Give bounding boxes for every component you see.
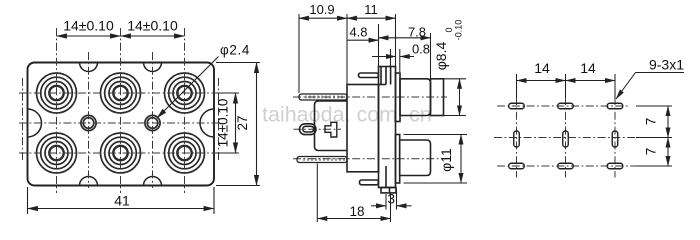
slot r2c3 vertical [612, 131, 618, 147]
extension pcb row1 [636, 105, 672, 107]
leader 9-3x1 [616, 73, 684, 100]
centerline side lug [294, 128, 342, 130]
extension tab right [390, 49, 392, 67]
extension row1 right [216, 92, 239, 94]
centerline outside right [218, 78, 220, 162]
svg-text:18: 18 [349, 204, 364, 219]
leader phi2.4 [157, 57, 219, 119]
svg-text:4.8: 4.8 [349, 25, 367, 40]
svg-text:3: 3 [388, 192, 396, 207]
slot r1c2 [558, 103, 574, 109]
extension pcb col1 [516, 74, 518, 98]
dimension 0.8 left arrow [372, 56, 396, 58]
dimension 41 [28, 187, 215, 214]
dimension phi11 [404, 135, 468, 184]
svg-text:10.9: 10.9 [309, 2, 334, 17]
svg-text:7.8: 7.8 [408, 25, 426, 40]
dimension 14 pcb (col2-col3) [566, 80, 616, 82]
svg-text:41: 41 [114, 193, 130, 209]
pin P2 serration [304, 158, 344, 161]
label phi8.4 tolerance [444, 20, 464, 41]
extension row2 right [216, 152, 239, 154]
top edge notch 2 [144, 63, 162, 72]
extension pcb col3 [614, 74, 616, 98]
slot r1c1 [509, 103, 525, 109]
right edge notch [200, 109, 214, 137]
top edge notch 1 [80, 63, 98, 72]
dimension 10.9 [299, 17, 347, 19]
svg-text:14±0.10: 14±0.10 [63, 18, 114, 34]
flange [379, 67, 396, 188]
centerline pcb col1 [516, 97, 518, 178]
dimension phi8.4 [432, 79, 466, 116]
extension barrel end [430, 33, 432, 79]
dimension 27 [216, 63, 260, 186]
side lug slot [303, 126, 314, 132]
dimension 3 [371, 189, 412, 210]
svg-text:φ11: φ11 [438, 148, 454, 172]
dimension 7 pcb (row2-row3) [667, 138, 669, 167]
centerline pcb row2 [494, 137, 648, 139]
centerline outside left [22, 78, 24, 162]
centerline col3 [184, 28, 186, 193]
slot r3c3 [607, 163, 623, 169]
flange bottom tab [381, 188, 396, 193]
collar upper [396, 73, 401, 122]
extension pin tip [298, 14, 300, 93]
svg-text:14: 14 [534, 60, 550, 76]
extension collar left [399, 49, 401, 72]
centerline pcb row3 [497, 165, 638, 167]
front plate outline [28, 63, 215, 186]
svg-text:0.8: 0.8 [412, 42, 430, 57]
centerline pcb col3 [614, 97, 616, 178]
svg-text:27: 27 [235, 115, 250, 130]
barrel lower [400, 140, 431, 176]
flange inner line top [385, 67, 387, 85]
body top edge into flange [379, 84, 387, 86]
bottom edge notch 1 [80, 177, 98, 186]
slot r3c2 [558, 163, 574, 169]
centerline lower jack axis [293, 158, 447, 160]
left edge notch [28, 109, 42, 137]
centerline hole H1 [88, 52, 90, 188]
dimension 11 [347, 17, 396, 19]
jack B3 (row2 col3) [165, 133, 205, 173]
extension pcb row3 [636, 165, 672, 167]
barrel upper tip [431, 79, 444, 116]
side lug [300, 124, 317, 135]
collar lower [396, 135, 400, 184]
flange inner line bottom [385, 166, 387, 188]
housing body [347, 85, 379, 172]
dimension 14+-0.10 (col1-col2) [57, 35, 121, 37]
jack B2 (row2 col2) [101, 133, 141, 173]
mounting hole H2 (phi 2.4) [145, 115, 160, 130]
slot r3c1 [509, 163, 525, 169]
slot r2c1 vertical [514, 131, 520, 147]
bottom edge notch 2 [144, 177, 162, 186]
svg-text:9-3x1: 9-3x1 [649, 57, 684, 73]
jack A1 (row1 col1) [37, 73, 77, 113]
dimension 14+-0.10 vertical (row1-row2) [235, 93, 237, 153]
centerline mid horizontal [19, 122, 222, 124]
jack A3 (row1 col3) [165, 73, 205, 113]
dimension 4.8 [347, 39, 379, 41]
flange top internal lines [381, 67, 391, 85]
mounting hole H1 (phi 2.4) [81, 115, 96, 130]
jack A2 (row1 col2) [101, 73, 141, 113]
pin P1 [299, 94, 347, 100]
svg-text:11: 11 [364, 2, 378, 17]
svg-text:φ8.4: φ8.4 [433, 42, 449, 71]
jack B1 (row2 col1) [37, 133, 77, 173]
svg-text:0: 0 [444, 27, 454, 32]
svg-text:-0.10: -0.10 [454, 20, 464, 41]
bottom peg [360, 180, 379, 185]
top peg [359, 73, 379, 78]
svg-text:14±0.10: 14±0.10 [216, 99, 231, 148]
slot r2c2 vertical [563, 131, 569, 147]
extension body left [346, 14, 348, 85]
centerline pcb row1 [497, 105, 630, 107]
svg-text:14: 14 [580, 60, 596, 76]
svg-text:φ2.4: φ2.4 [220, 43, 250, 58]
dimension 7.8 [379, 37, 431, 39]
latch window [325, 122, 337, 137]
slot r1c3 [607, 103, 623, 109]
dimension 7 pcb (row1-row2) [667, 106, 669, 138]
dimension 0.8 right arrow [400, 56, 414, 58]
extension flange left [378, 24, 380, 67]
centerline col2 [120, 28, 122, 193]
centerline col1 [56, 28, 58, 193]
centerline pcb col2 [565, 97, 567, 178]
side bracket [315, 101, 348, 151]
svg-text:7: 7 [644, 148, 659, 156]
extension flange right top [395, 14, 397, 67]
extension pcb row2 [636, 137, 672, 139]
dimension 18 [317, 164, 390, 223]
svg-text:14±0.10: 14±0.10 [127, 18, 178, 34]
dimension 14+-0.10 (col2-col3) [121, 35, 185, 37]
pin P1 serration [306, 96, 342, 99]
extension pcb col2 [565, 74, 567, 98]
centerline row1 [19, 92, 216, 94]
svg-text:7: 7 [644, 118, 659, 126]
pin P2 [297, 157, 347, 163]
centerline upper jack axis [293, 96, 447, 98]
centerline hole H2 [152, 52, 154, 188]
centerline row2 [19, 152, 216, 154]
barrel upper [400, 79, 431, 116]
dimension 14 pcb (col1-col2) [517, 80, 566, 82]
